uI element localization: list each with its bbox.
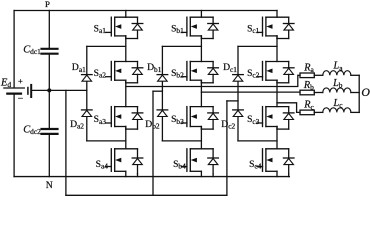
svg-text:Sa4: Sa4 <box>96 159 109 171</box>
svg-text:−: − <box>18 94 24 105</box>
svg-text:O: O <box>361 85 370 99</box>
svg-text:Ra: Ra <box>303 63 314 75</box>
svg-text:Da2: Da2 <box>70 119 84 131</box>
svg-text:Cdc2: Cdc2 <box>23 125 41 137</box>
svg-text:Sc4: Sc4 <box>249 159 262 171</box>
svg-text:Sb1: Sb1 <box>171 24 184 36</box>
svg-text:Sc2: Sc2 <box>247 68 260 80</box>
svg-text:Db1: Db1 <box>147 62 162 74</box>
svg-text:N: N <box>46 181 53 191</box>
svg-text:Sb4: Sb4 <box>173 159 186 171</box>
svg-text:Ed: Ed <box>0 78 11 90</box>
svg-text:Lc: Lc <box>333 98 344 110</box>
svg-text:Lb: Lb <box>332 78 343 90</box>
svg-text:Sa2: Sa2 <box>94 68 107 80</box>
svg-text:+: + <box>18 76 23 86</box>
svg-text:Sc3: Sc3 <box>247 114 260 126</box>
svg-text:Sb2: Sb2 <box>171 68 184 80</box>
svg-text:Dc1: Dc1 <box>223 62 237 74</box>
svg-text:La: La <box>333 61 344 73</box>
svg-text:Cdc1: Cdc1 <box>23 45 41 57</box>
svg-text:P: P <box>45 0 50 9</box>
svg-text:Sa3: Sa3 <box>94 114 107 126</box>
svg-text:Da1: Da1 <box>72 62 86 74</box>
svg-text:Sa1: Sa1 <box>94 24 107 36</box>
svg-text:Db2: Db2 <box>145 119 160 131</box>
svg-text:Rb: Rb <box>303 80 314 92</box>
svg-text:Sc1: Sc1 <box>247 24 260 36</box>
svg-text:Sb3: Sb3 <box>171 114 184 126</box>
svg-text:Rc: Rc <box>303 100 314 112</box>
svg-text:Dc2: Dc2 <box>221 119 235 131</box>
